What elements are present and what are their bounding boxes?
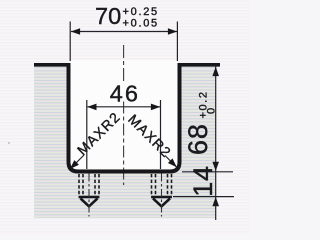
dimension 70: dimension line with arrows — [71, 31, 177, 33]
dimension 14: bottom arrow (outside) — [212, 197, 219, 206]
dimension 70: extension lines — [69, 22, 71, 62]
svg-text:+0.25: +0.25 — [123, 6, 159, 18]
material cross-section fill (left block, right block, base under slot) — [34, 64, 216, 218]
slot cavity (white) — [71, 60, 178, 169]
slot centerline — [123, 45, 125, 84]
hole bottom extension line — [173, 196, 234, 198]
faint scan speck — [8, 142, 10, 144]
tapped hole left: centerline — [88, 174, 90, 217]
tapped hole right: thread lines — [152, 174, 172, 197]
svg-text:+0.05: +0.05 — [123, 18, 159, 30]
svg-text:68: 68 — [183, 123, 213, 155]
tapped hole left: bottom and drill cone — [79, 197, 100, 206]
svg-text:46: 46 — [110, 81, 140, 107]
paper background — [0, 0, 250, 233]
tapped hole right: bottom and drill cone — [151, 197, 172, 206]
slot outline: left wall, floor, right wall — [69, 63, 180, 172]
dimension 68/14: vertical dimension line — [215, 66, 217, 220]
floor level extension line — [182, 171, 233, 173]
top surface line left — [34, 63, 70, 67]
svg-text:14: 14 — [188, 165, 218, 197]
MAXR2 right leader arrow — [165, 156, 177, 168]
top surface line right — [178, 63, 220, 67]
svg-text:0: 0 — [206, 108, 218, 114]
dimension 46: extension lines — [86, 100, 88, 169]
dimension 68: top arrow — [212, 67, 219, 76]
svg-text:70: 70 — [95, 3, 121, 29]
dimension 68: bottom arrow — [212, 162, 219, 171]
dimension 46: dimension line with arrows — [88, 106, 161, 108]
tapped hole right: centerline — [161, 174, 163, 217]
tapped hole left: thread lines — [79, 174, 99, 197]
MAXR2 left leader arrow — [71, 155, 85, 169]
